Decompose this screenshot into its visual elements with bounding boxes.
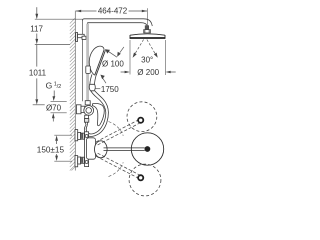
svg-text:464-472: 464-472 [98, 7, 128, 16]
hand shower hose nut [89, 84, 95, 91]
svg-text:117: 117 [30, 25, 43, 34]
detail view: middle knob circle [131, 133, 163, 165]
dimension O70 [51, 101, 67, 121]
wall face line [74, 11, 76, 171]
mixer valve (system view) [76, 101, 93, 123]
svg-text:30°: 30° [141, 55, 153, 64]
detail view: middle shaft end dot [145, 146, 151, 152]
detail view: lower swing lever [96, 153, 141, 178]
detail view: lower inlet escutcheon [75, 156, 84, 167]
svg-text:1011: 1011 [29, 68, 47, 77]
detail view: mixer body top view [85, 132, 96, 167]
dimension O200 [121, 40, 176, 75]
svg-text:Ø 100: Ø 100 [102, 59, 124, 68]
detail view: upper inlet escutcheon [75, 130, 84, 141]
svg-text:G: G [46, 80, 53, 90]
riser pipe [82, 21, 88, 101]
shower hose [84, 91, 108, 137]
shower arm [82, 19, 152, 26]
detail view: upper lever end dot [138, 118, 143, 123]
detail view: upper knob circle dashed [127, 102, 157, 132]
dimension 1011 [33, 45, 45, 105]
svg-text:Ø 200: Ø 200 [137, 68, 159, 77]
rain shower head [130, 34, 166, 39]
svg-text:150±15: 150±15 [37, 145, 65, 154]
svg-text:Ø70: Ø70 [46, 103, 62, 112]
head connector nut [144, 26, 151, 33]
mixer lever handle (system view) [92, 103, 104, 125]
hand shower holder [86, 66, 91, 73]
dimension 464-472 [76, 8, 147, 26]
dimension 117 [35, 7, 83, 44]
detail view: lever shaft middle [104, 148, 145, 151]
detail view: lower knob circle dashed [129, 164, 161, 196]
svg-text:/2: /2 [57, 84, 62, 90]
spray cone 30 deg [133, 40, 158, 58]
wall hatch [70, 18, 76, 171]
dimension 150±15 [54, 135, 72, 161]
svg-text:1750: 1750 [101, 85, 119, 94]
wall bracket [76, 33, 86, 42]
detail view: knob hub [95, 141, 108, 158]
hand shower [89, 46, 105, 84]
detail view: lower lever end dot [138, 175, 143, 180]
detail view: upper swing lever [96, 120, 141, 145]
